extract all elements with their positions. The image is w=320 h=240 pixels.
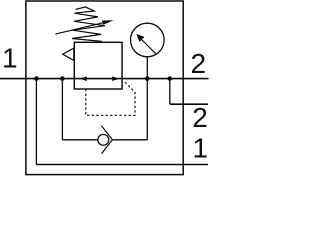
valve body U1 (regulator box) (74, 42, 122, 89)
wire port 2 branch horizontal (170, 103, 208, 105)
svg-text:1: 1 (193, 133, 209, 164)
pressure gauge G1 (131, 23, 165, 57)
check valve seat (102, 126, 113, 154)
pilot line (dashed) (86, 82, 135, 116)
check valve V1 (ball) (98, 134, 109, 145)
junction node dot 1 (34, 76, 39, 81)
junction node dot 4 (branch) (167, 76, 172, 81)
enclosure frame (outer box) (26, 1, 183, 175)
arrowhead left (flow path) (80, 76, 87, 81)
wire port 1 passthrough bottom (36, 164, 208, 166)
relief triangle (exhaust) (63, 48, 74, 60)
svg-text:2: 2 (192, 102, 208, 133)
svg-text:2: 2 (191, 48, 207, 79)
svg-text:1: 1 (2, 43, 18, 74)
adjustment arrow (55, 22, 104, 34)
wire port 1 passthrough vertical (35, 79, 37, 165)
gauge needle (141, 38, 156, 53)
spring (adjustable, zigzag) (72, 7, 105, 42)
wire port 2 branch vertical (169, 79, 171, 105)
wire main flow line port 1 to port 2 (0, 78, 209, 80)
arrowhead right (flow path) (112, 76, 119, 81)
wire pilot branch left vertical (61, 79, 63, 140)
junction node dot 2 (60, 76, 65, 81)
wire check valve run (lower) (112, 139, 147, 141)
gauge stem / pilot vertical (146, 57, 148, 140)
junction node dot 3 (gauge) (145, 76, 150, 81)
